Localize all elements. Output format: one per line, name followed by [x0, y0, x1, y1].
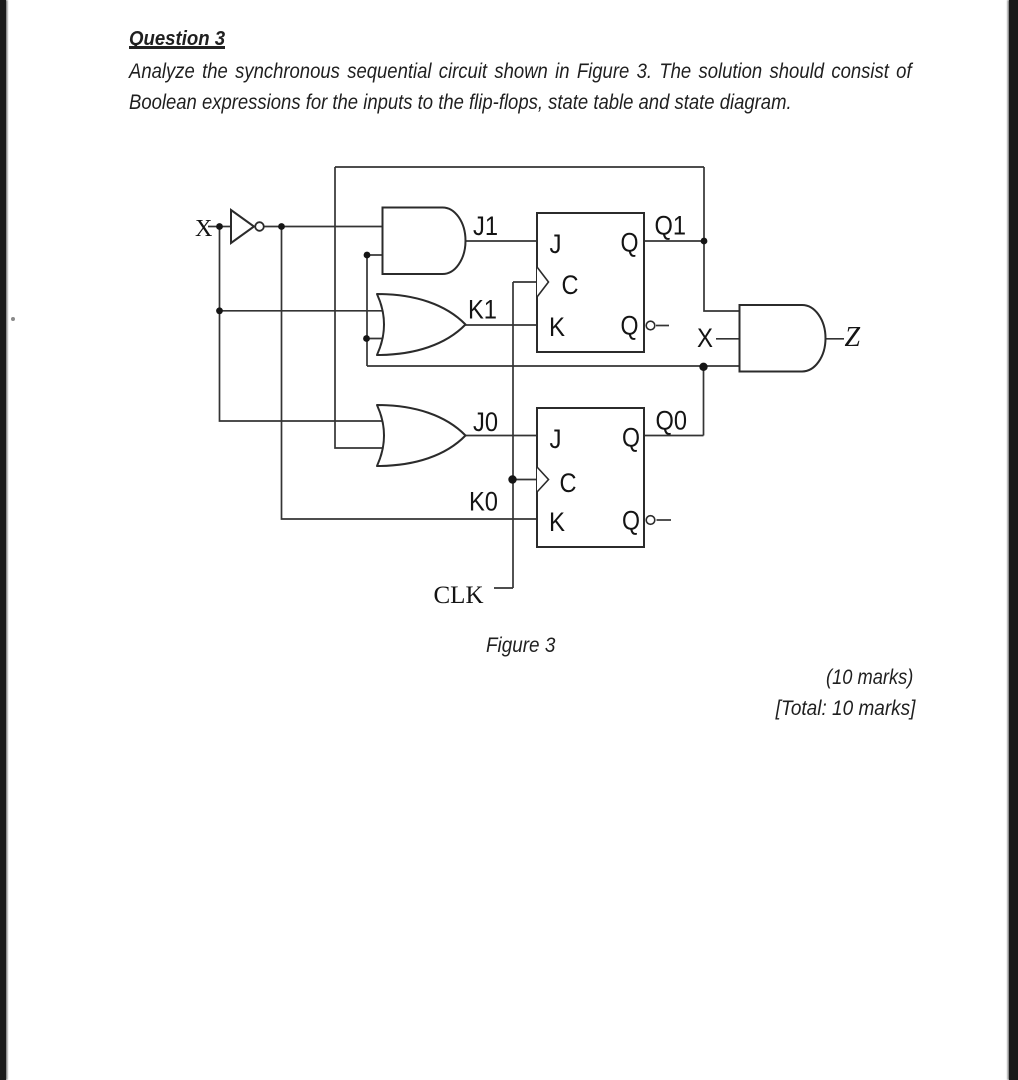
- wire right feedback vertical from top to Q1 node: [703, 167, 705, 241]
- wire Q1 output from FF1: [644, 240, 704, 242]
- wire FF1 Q-bar stub: [656, 325, 669, 327]
- svg-text:K: K: [549, 312, 565, 342]
- OR gate J0: [377, 405, 466, 466]
- wire CLK stub to FF1 C input: [513, 281, 537, 283]
- svg-text:Q1: Q1: [655, 211, 687, 241]
- junction node K1 input 2: [363, 335, 370, 342]
- junction node A on X vertical: [216, 307, 223, 314]
- flip-flop FF1 Q-bar bubble: [646, 321, 655, 330]
- junction node FF0 clock: [508, 475, 516, 483]
- paragraph line 2: [129, 87, 792, 118]
- wire stub to OR K1 input 2: [367, 338, 388, 340]
- wire node B to AND J1 input 1: [282, 226, 384, 228]
- svg-text:Q: Q: [622, 423, 640, 453]
- heading Question 3: [129, 27, 225, 51]
- caption Figure 3: [486, 634, 555, 658]
- wire vertical from node B down then to K0 input of FF0: [282, 227, 538, 520]
- wire Q0 output from FF0: [644, 435, 704, 437]
- svg-text:J: J: [550, 424, 562, 454]
- flip-flop FF1 box: [537, 213, 644, 352]
- svg-text:J: J: [550, 229, 562, 259]
- flip-flop FF1 clock edge triangle: [537, 267, 549, 297]
- junction node on inverter output: [278, 223, 285, 230]
- wire J0 gate output to FF0 J input: [466, 435, 537, 437]
- svg-text:Q: Q: [621, 228, 639, 258]
- OR gate K1: [377, 294, 466, 355]
- junction node on X input: [216, 223, 223, 230]
- inverter NOT gate on X input: [231, 210, 254, 243]
- AND gate J1: [383, 208, 466, 275]
- left scan edge bar: [0, 0, 6, 1080]
- wire Q1 node down to Z-AND top input: [704, 241, 740, 311]
- wire K1 gate output to FF1 K input: [466, 324, 538, 326]
- flip-flop FF0 box: [537, 408, 644, 547]
- wire Z output: [826, 338, 845, 340]
- svg-text:K1: K1: [468, 295, 497, 325]
- wire J1 gate output to FF1 J input: [466, 240, 538, 242]
- wire feedback branch vertical to J1 input 2: [366, 255, 368, 366]
- svg-text:Z: Z: [845, 322, 861, 353]
- wire top feedback horizontal: [335, 166, 704, 168]
- junction node J1 input 2: [364, 252, 371, 259]
- flip-flop FF0 clock edge triangle: [537, 467, 549, 492]
- wire Q0 node vertical down: [703, 366, 705, 436]
- junction node Q0 feedback: [699, 363, 707, 371]
- wire FF0 Q-bar stub: [657, 519, 672, 521]
- right scan edge bar: [1009, 0, 1018, 1080]
- wire X input dash to Z-AND middle input: [716, 338, 740, 340]
- heading underline: [129, 46, 225, 48]
- marks line: [826, 666, 913, 690]
- svg-text:C: C: [562, 270, 579, 300]
- wire X node to inverter input: [220, 226, 232, 228]
- svg-text:CLK: CLK: [434, 582, 484, 609]
- paragraph line 1: [129, 56, 912, 87]
- wire CLK stub to FF0 C input: [513, 479, 537, 481]
- svg-text:X: X: [697, 323, 713, 353]
- svg-text:J1: J1: [473, 211, 498, 241]
- wire CLK label dash: [494, 587, 513, 589]
- svg-text:J0: J0: [473, 407, 498, 437]
- wire left feedback vertical to J0 lower input: [335, 167, 389, 448]
- wire CLK vertical: [512, 282, 514, 588]
- flip-flop FF0 Q-bar bubble: [646, 516, 655, 525]
- wire vertical from X node down then to OR J0 input 1: [220, 227, 390, 422]
- inverter output bubble: [255, 222, 264, 231]
- wire inverter output to node B: [264, 226, 282, 228]
- svg-text:K: K: [549, 507, 565, 537]
- wire node A to OR K1 input 1: [220, 310, 389, 312]
- svg-text:C: C: [560, 468, 577, 498]
- wire stub to AND J1 input 2: [367, 254, 383, 256]
- AND gate Z output: [740, 305, 826, 372]
- svg-text:X: X: [195, 216, 212, 242]
- wire long Q0 feedback horizontal to Z-AND bottom input: [367, 365, 740, 367]
- scan speck artifact: [11, 317, 15, 321]
- svg-text:Q0: Q0: [656, 406, 688, 436]
- total marks line: [775, 697, 915, 721]
- svg-text:Q: Q: [622, 506, 640, 536]
- svg-text:K0: K0: [469, 487, 498, 517]
- wire X input stub: [208, 226, 220, 228]
- junction node Q1: [701, 238, 708, 245]
- svg-text:Q: Q: [621, 311, 639, 341]
